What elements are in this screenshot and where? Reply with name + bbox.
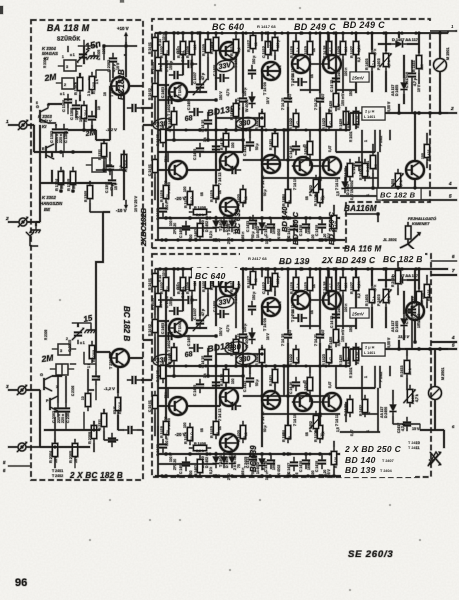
scan grain overlay <box>0 0 1 1</box>
